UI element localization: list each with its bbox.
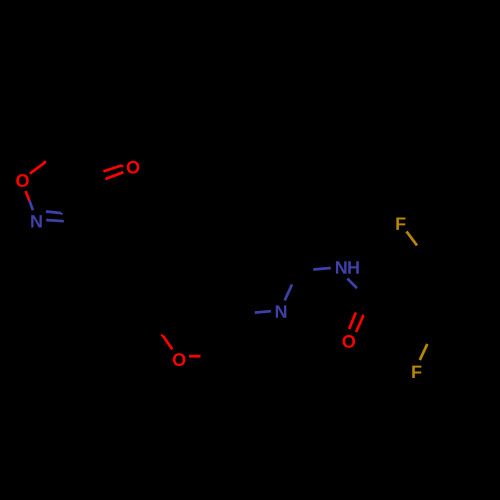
- N2 isoxazolone ring nitrogen: [31, 215, 42, 227]
- amide O: [343, 335, 356, 348]
- amide H of NH: [348, 261, 359, 273]
- wire C4=O main red half: [105, 172, 123, 179]
- wire N2=C3 double bond main blue half: [46, 220, 64, 221]
- wire O1-C5 red half: [30, 161, 46, 174]
- wire NH-C(O) blue half: [347, 279, 357, 289]
- amine N: [276, 305, 287, 317]
- wire amide C=O inner red half: [356, 315, 363, 332]
- wire C4=O inner red half: [103, 165, 123, 171]
- wire amide C=O main red half: [349, 313, 356, 330]
- wire N-CH blue half: [285, 284, 292, 300]
- amide N of NH: [336, 261, 347, 273]
- wire CH-NH blue half: [313, 268, 331, 270]
- wire F-Car gold half (bottom): [420, 344, 428, 360]
- ketone O on C4: [127, 161, 140, 174]
- fluorine F bottom: [412, 366, 421, 378]
- wire O-CH2 red half: [189, 355, 201, 358]
- O1 isoxazolone ring oxygen: [16, 174, 29, 187]
- wire CH2-N blue half: [255, 311, 271, 312]
- wire O1-N2 red half: [26, 191, 30, 201]
- wire F-Car gold half (top): [407, 231, 418, 245]
- wire O1-N2 blue half: [29, 201, 33, 211]
- wire Car-O red half: [161, 335, 172, 350]
- ether O: [173, 353, 186, 366]
- wire N2=C3 double bond inner blue half: [46, 212, 63, 215]
- fluorine F top: [396, 218, 405, 230]
